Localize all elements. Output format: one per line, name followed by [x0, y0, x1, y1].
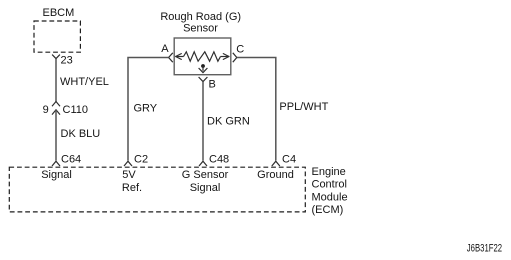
svg-text:23: 23: [61, 55, 73, 67]
svg-text:G Sensor: G Sensor: [182, 169, 229, 181]
svg-text:C110: C110: [63, 104, 88, 116]
svg-text:C48: C48: [209, 154, 229, 166]
svg-text:A: A: [161, 43, 169, 55]
svg-text:Signal: Signal: [41, 169, 72, 181]
svg-text:J6B31F22: J6B31F22: [467, 243, 502, 255]
terminal B connector (female half below box): [199, 77, 208, 82]
ECM box (dashed): [9, 167, 305, 212]
connector C2: [124, 161, 132, 166]
svg-text:Ref.: Ref.: [122, 182, 142, 194]
svg-text:GRY: GRY: [134, 102, 158, 114]
EBCM box (dashed): [34, 21, 80, 52]
connector C64: [52, 161, 60, 166]
potentiometer element (zigzag with double arrow): [176, 52, 229, 61]
svg-text:(ECM): (ECM): [312, 204, 344, 216]
svg-text:Control: Control: [312, 179, 347, 191]
terminal C connector chevron: [233, 53, 237, 62]
svg-text:Module: Module: [312, 191, 348, 203]
svg-text:C64: C64: [61, 154, 81, 166]
svg-text:B: B: [209, 79, 216, 91]
svg-text:Engine: Engine: [312, 166, 346, 178]
svg-text:9: 9: [43, 104, 49, 116]
svg-text:C: C: [236, 44, 244, 56]
sensor box: [174, 38, 231, 75]
svg-text:WHT/YEL: WHT/YEL: [60, 76, 109, 88]
ECM title: [312, 166, 348, 216]
connector C4: [272, 161, 280, 166]
svg-text:Ground: Ground: [257, 169, 294, 181]
svg-text:EBCM: EBCM: [43, 7, 75, 19]
svg-text:Rough Road (G): Rough Road (G): [160, 11, 241, 23]
svg-text:Signal: Signal: [190, 182, 221, 194]
wire from C to right then down (PPL/WHT): [237, 58, 276, 161]
terminal A connector chevron: [169, 53, 173, 62]
svg-text:DK GRN: DK GRN: [207, 115, 250, 127]
svg-text:C4: C4: [282, 154, 296, 166]
svg-text:PPL/WHT: PPL/WHT: [279, 101, 328, 113]
connector C48: [199, 161, 207, 166]
svg-text:5V: 5V: [122, 169, 136, 181]
wire WHT/YEL: [55, 59, 57, 102]
wire from A to left then down (GRY): [128, 58, 169, 161]
svg-text:DK BLU: DK BLU: [61, 128, 101, 140]
wire DK BLU: [55, 110, 57, 161]
connector C110: [52, 102, 60, 115]
svg-text:Sensor: Sensor: [183, 23, 218, 35]
wire B down (DK GRN): [202, 81, 204, 160]
connector 23 (female half below EBCM): [52, 55, 60, 59]
svg-text:C2: C2: [134, 154, 148, 166]
wiper (dot and down chevron arrow): [199, 64, 208, 73]
